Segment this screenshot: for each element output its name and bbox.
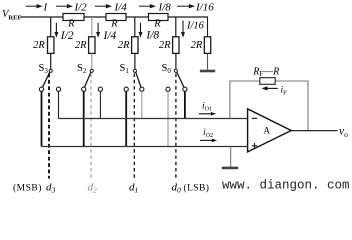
svg-text:A: A [264,126,271,136]
svg-text:I/2: I/2 [74,1,88,13]
svg-text:2R: 2R [33,40,45,51]
svg-text:2R: 2R [75,40,87,51]
svg-text:I/8: I/8 [158,1,172,13]
svg-text:I/4: I/4 [114,1,128,13]
svg-text:R: R [110,19,118,30]
svg-text:2R: 2R [159,40,171,51]
svg-text:2R: 2R [191,40,203,51]
svg-text:RF—R: RF—R [252,66,279,78]
svg-text:2R: 2R [118,40,130,51]
svg-text:I/16: I/16 [195,1,214,13]
svg-text:R: R [67,19,75,30]
svg-text:I/16: I/16 [186,21,205,32]
svg-text:I/2: I/2 [60,30,74,42]
svg-text:www. diangon. com: www. diangon. com [222,179,350,193]
svg-text:I/8: I/8 [145,29,159,41]
svg-text:R: R [153,19,161,30]
svg-text:(MSB): (MSB) [13,183,42,194]
svg-text:I/4: I/4 [103,30,117,42]
